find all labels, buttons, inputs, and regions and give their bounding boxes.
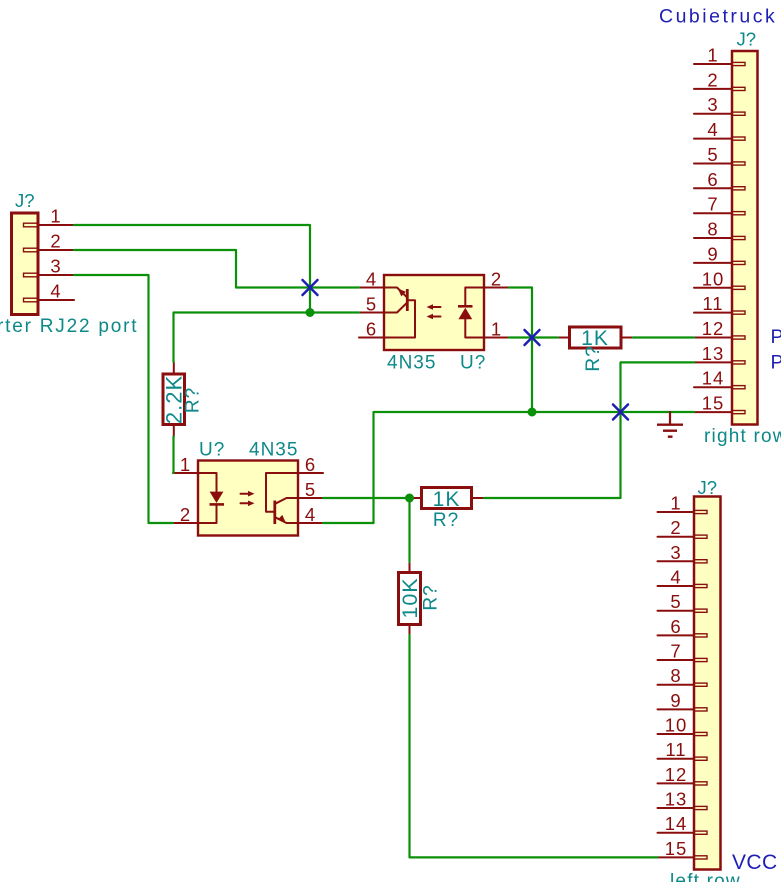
connector J? left-row pin 12 [658, 764, 708, 785]
svg-text:11: 11 [702, 293, 723, 314]
wire opto pin5 to 2.2K [174, 313, 360, 363]
connector J? right-row pin 15 [694, 393, 745, 414]
wire gnd rail [374, 412, 695, 523]
wire opto pin2 down to gnd rail [509, 288, 532, 413]
svg-text:1: 1 [491, 319, 502, 340]
svg-text:J?: J? [737, 29, 757, 50]
connector J? right-row pin 4 [694, 119, 745, 140]
svg-text:J?: J? [15, 190, 35, 211]
svg-text:rter RJ22 port: rter RJ22 port [0, 316, 138, 337]
svg-text:R?: R? [183, 387, 204, 413]
svg-text:4: 4 [305, 504, 316, 525]
junction at pin5 node [306, 308, 315, 317]
svg-text:3: 3 [707, 94, 718, 115]
svg-text:9: 9 [707, 243, 718, 264]
connector J? left-row pin 9 [658, 690, 708, 711]
svg-text:15: 15 [702, 393, 725, 414]
svg-text:15: 15 [665, 838, 688, 859]
connector J? left-row pin 4 [658, 567, 708, 588]
connector J? right-row pin 3 [694, 94, 745, 115]
wire 2.2K to opto2 pin1 [172, 437, 174, 474]
opto U? bottom pin 1 [173, 454, 198, 475]
svg-text:U?: U? [460, 353, 486, 374]
connector J? RJ22 reference J? [15, 190, 35, 211]
phototransistor of U? top [385, 288, 415, 338]
svg-text:5: 5 [305, 479, 316, 500]
resistor R? 2.2K body [163, 362, 185, 437]
opto U? bottom pin 4 [298, 504, 323, 525]
opto U? bottom pin 5 [298, 479, 323, 500]
connector J? right-row pin 5 [694, 144, 745, 165]
junction at 1K lower node [405, 494, 414, 503]
connector J? right-row pin 11 [694, 293, 745, 314]
svg-text:8: 8 [707, 219, 718, 240]
connector J? right-row pin 14 [694, 368, 745, 389]
value 1K lower [433, 488, 461, 511]
value 10K [398, 577, 422, 618]
connector J? left-row pin 11 [658, 739, 708, 760]
svg-text:2: 2 [491, 269, 502, 290]
resistor R? 1K lower body [410, 488, 485, 509]
svg-text:3: 3 [670, 542, 681, 563]
svg-text:14: 14 [665, 813, 688, 834]
svg-text:P?: P? [771, 326, 781, 348]
svg-text:2: 2 [50, 231, 61, 252]
connector J? RJ22 pin 3 [24, 256, 75, 277]
svg-text:10: 10 [665, 715, 688, 736]
resistor R? 1K upper body [558, 327, 633, 348]
opto U? top pin 1 [484, 319, 509, 340]
connector J? left-row pin 14 [658, 813, 708, 834]
reference R? (1K lower) [433, 510, 459, 531]
light arrows of U? top [427, 304, 441, 319]
connector J? right-row pin 9 [694, 243, 745, 264]
opto U? top pin 2 [484, 269, 509, 290]
svg-text:11: 11 [665, 739, 686, 760]
svg-text:10: 10 [702, 268, 725, 289]
connector J? RJ22 pin 1 [24, 206, 75, 227]
svg-text:1K: 1K [433, 488, 461, 511]
power label VCC [732, 851, 778, 874]
connector J? left-row pin 6 [658, 616, 708, 637]
ground symbol [657, 412, 683, 437]
wire junction to 10K [408, 498, 410, 562]
svg-text:3: 3 [50, 256, 61, 277]
label rter RJ22 port [0, 316, 138, 337]
connector J? left-row pin 8 [658, 665, 708, 686]
connector J? right-row pin 8 [694, 219, 745, 240]
svg-text:13: 13 [665, 789, 688, 810]
wire opto2 pin5 to junction [323, 497, 410, 499]
svg-text:5: 5 [707, 144, 718, 165]
svg-text:6: 6 [707, 169, 718, 190]
label right row [704, 426, 781, 447]
svg-text:R?: R? [421, 584, 442, 610]
wire conn pin2 to opto pin4 [74, 250, 359, 288]
hierarchical label P (pin12) [771, 326, 781, 348]
svg-text:U?: U? [199, 440, 225, 461]
value 4N35 (U? top) [387, 353, 436, 374]
svg-text:right row: right row [704, 426, 781, 447]
svg-text:1: 1 [180, 454, 191, 475]
wire conn pin3 to opto2 pin2 [74, 275, 173, 523]
label Cubietruck [659, 6, 777, 28]
svg-text:J?: J? [698, 477, 718, 498]
wire conn pin1 to junction (horiz+vert) [74, 225, 310, 313]
connector J? right-row pin 2 [694, 69, 745, 90]
svg-text:Cubietruck: Cubietruck [659, 6, 777, 28]
connector J? left-row pin 1 [658, 493, 708, 514]
connector J? left-row pin 15 [658, 838, 708, 859]
wire opto2 pin4 to rail [323, 522, 374, 524]
svg-text:12: 12 [702, 318, 725, 339]
connector J? left-row reference J? [698, 477, 718, 498]
wire opto pin1 to 1K upper [509, 336, 558, 338]
opto U? top pin 6 [359, 319, 384, 340]
no-connect X at wire crossing 1 [303, 280, 318, 295]
connector J? right-row pin 13 [694, 343, 745, 364]
resistor R? 10K body [399, 562, 421, 635]
reference U? bottom [199, 440, 225, 461]
reference U? top [460, 353, 486, 374]
svg-text:14: 14 [702, 368, 725, 389]
opto U? bottom pin 6 [298, 454, 323, 475]
svg-text:R?: R? [433, 510, 459, 531]
opto U? bottom 4N35 body [198, 461, 298, 536]
svg-text:4N35: 4N35 [387, 353, 436, 374]
opto U? top pin 4 [359, 269, 384, 290]
svg-text:2: 2 [180, 504, 191, 525]
junction at gnd rail [528, 408, 537, 417]
svg-text:VCC: VCC [732, 851, 778, 874]
svg-text:1: 1 [670, 493, 681, 514]
connector J? left-row pin 3 [658, 542, 708, 563]
svg-text:8: 8 [670, 665, 681, 686]
hierarchical label P (pin13) [771, 352, 781, 374]
svg-text:4N35: 4N35 [249, 440, 298, 461]
opto U? bottom pin 2 [173, 504, 198, 525]
connector J? left-row pin 7 [658, 641, 708, 662]
svg-text:6: 6 [366, 319, 377, 340]
svg-text:4: 4 [670, 567, 681, 588]
svg-text:12: 12 [665, 764, 688, 785]
svg-text:9: 9 [670, 690, 681, 711]
value 2.2K [162, 375, 187, 424]
connector J? RJ22 pin 2 [24, 231, 75, 252]
LED of U? bottom [199, 473, 224, 523]
svg-text:2: 2 [670, 517, 681, 538]
svg-text:7: 7 [707, 194, 718, 215]
svg-text:5: 5 [670, 591, 681, 612]
connector J? left-row pin 13 [658, 789, 708, 810]
connector J? right-row body [732, 51, 758, 425]
value 1K upper [581, 327, 609, 350]
connector J? left-row pin 5 [658, 591, 708, 612]
svg-text:1: 1 [50, 206, 61, 227]
label left row [670, 871, 741, 882]
reference R? (10K) [421, 584, 442, 610]
connector J? right-row reference J? [737, 29, 757, 50]
value 4N35 (U? bottom) [249, 440, 298, 461]
svg-text:4: 4 [50, 281, 61, 302]
connector J? right-row pin 10 [694, 268, 745, 289]
reference R? (2.2K) [183, 387, 204, 413]
opto U? top 4N35 body [384, 275, 484, 350]
light arrows of U? bottom [241, 491, 255, 506]
phototransistor of U? bottom [266, 473, 297, 524]
connector J? right-row pin 12 [694, 318, 745, 339]
connector J? left-row pin 10 [658, 715, 708, 736]
LED of U? top [458, 288, 483, 338]
no-connect X at wire crossing 3 [613, 405, 628, 420]
svg-text:10K: 10K [398, 577, 422, 618]
svg-text:6: 6 [670, 616, 681, 637]
svg-text:P?: P? [771, 352, 781, 374]
connector J? right-row pin 1 [694, 45, 745, 66]
connector J? right-row pin 7 [694, 194, 745, 215]
svg-text:left row: left row [670, 871, 741, 882]
wire 10K to conn2 pin15 [410, 635, 658, 857]
svg-text:4: 4 [366, 269, 377, 290]
svg-text:5: 5 [366, 294, 377, 315]
svg-text:6: 6 [305, 454, 316, 475]
connector J? left-row pin 2 [658, 517, 708, 538]
wire conn pin13 down to 1K lower [484, 362, 694, 498]
svg-text:13: 13 [702, 343, 725, 364]
svg-text:7: 7 [670, 641, 681, 662]
reference R? (1K upper) [583, 345, 604, 371]
svg-text:4: 4 [707, 119, 718, 140]
svg-text:1: 1 [707, 45, 718, 66]
svg-text:R?: R? [583, 345, 604, 371]
wire 1K upper to conn pin12 [633, 336, 694, 338]
no-connect X at wire crossing 2 [525, 330, 540, 345]
connector J? right-row pin 6 [694, 169, 745, 190]
connector J? left-row body [694, 497, 721, 870]
connector J? RJ22 pin 4 [24, 281, 75, 302]
svg-text:2: 2 [707, 69, 718, 90]
connector J? RJ22 body [12, 213, 39, 315]
opto U? top pin 5 [359, 294, 384, 315]
